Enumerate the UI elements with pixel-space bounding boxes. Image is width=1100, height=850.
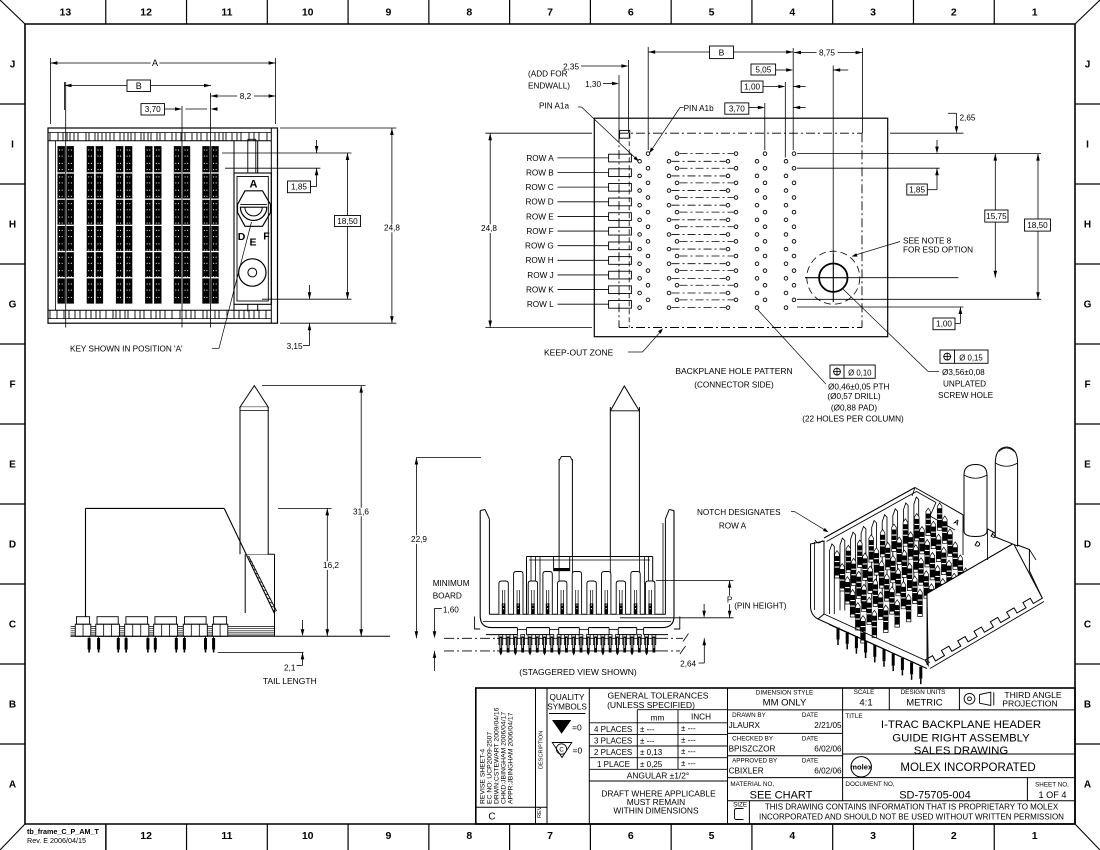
svg-text:I-TRAC BACKPLANE HEADER: I-TRAC BACKPLANE HEADER	[881, 719, 1041, 731]
svg-text:Ø3,56±0,08: Ø3,56±0,08	[942, 368, 985, 377]
side view housing body	[86, 508, 225, 616]
svg-text:1: 1	[1032, 7, 1038, 19]
svg-text:BPISZCZOR: BPISZCZOR	[729, 744, 776, 753]
row G label	[525, 242, 609, 251]
dimension A (overall width)	[50, 58, 275, 124]
svg-text:SHEET NO,: SHEET NO,	[1035, 782, 1069, 789]
svg-text:± ---: ± ---	[681, 724, 696, 733]
isometric letters on guide face	[952, 517, 999, 550]
material no cell	[730, 781, 812, 802]
svg-text:THIS DRAWING CONTAINS INFOR: THIS DRAWING CONTAINS INFORMATION THAT I…	[765, 803, 1059, 812]
svg-text:ROW G: ROW G	[525, 242, 554, 251]
quality symbols box	[547, 688, 589, 824]
svg-text:(CONNECTOR SIDE): (CONNECTOR SIDE)	[694, 381, 774, 390]
svg-text:(22 HOLES PER COLUMN): (22 HOLES PER COLUMN)	[802, 415, 904, 424]
dimension 1.00 (top)	[741, 81, 805, 92]
svg-text:ROW L: ROW L	[527, 300, 554, 309]
svg-text:5,05: 5,05	[755, 65, 771, 74]
svg-text:INCH: INCH	[691, 713, 711, 722]
svg-text:F: F	[263, 231, 270, 243]
svg-text:INCORPORATED AND SHOULD NOT: INCORPORATED AND SHOULD NOT BE USED WITH…	[759, 812, 1064, 821]
svg-text:ROW D: ROW D	[525, 198, 553, 207]
row C label	[525, 183, 608, 192]
dimension 24.8 (front view)	[280, 128, 403, 323]
row C pad	[609, 183, 632, 191]
svg-text:2,64: 2,64	[680, 659, 696, 668]
dimension 18.50 (front view)	[262, 153, 361, 299]
svg-text:ANGULAR ±1/2°: ANGULAR ±1/2°	[627, 771, 689, 781]
svg-text:4: 4	[789, 7, 795, 19]
svg-text:=0: =0	[573, 746, 583, 756]
note notch designates row A	[697, 508, 829, 532]
svg-text:A: A	[1084, 780, 1091, 791]
staggered wafers	[499, 572, 655, 615]
svg-text:3,70: 3,70	[729, 104, 745, 113]
row H label	[525, 256, 608, 265]
svg-text:7: 7	[547, 7, 553, 19]
svg-text:ROW E: ROW E	[526, 212, 554, 221]
dimension B (hole pattern)	[648, 46, 793, 59]
row F label	[526, 227, 608, 236]
svg-text:I: I	[11, 140, 14, 151]
svg-text:MINIMUM: MINIMUM	[433, 579, 470, 588]
svg-text:Ø 0,15: Ø 0,15	[959, 353, 983, 362]
molex logo and company row	[850, 757, 1035, 777]
svg-text:2 PLACES: 2 PLACES	[594, 748, 632, 757]
svg-text:REV: REV	[537, 806, 543, 818]
svg-text:METRIC: METRIC	[906, 698, 943, 709]
svg-text:JLAURX: JLAURX	[729, 721, 761, 730]
note BACKPLANE HOLE PATTERN	[675, 366, 792, 390]
svg-text:13: 13	[60, 7, 72, 19]
staggered view guide pin tall	[610, 386, 639, 614]
svg-text:molex: molex	[850, 763, 873, 772]
dimension 5.05	[751, 64, 848, 75]
svg-text:10: 10	[302, 7, 314, 19]
row D label	[525, 198, 608, 207]
svg-text:ROW B: ROW B	[526, 168, 554, 177]
document no cell	[728, 778, 1076, 802]
side view laminate stack lines	[71, 627, 275, 635]
svg-text:FOR ESD OPTION: FOR ESD OPTION	[903, 245, 973, 254]
svg-text:6: 6	[628, 7, 634, 19]
svg-text:CHECKED BY: CHECKED BY	[732, 735, 774, 742]
front view housing outline	[48, 128, 278, 323]
svg-text:± ---: ± ---	[640, 737, 655, 746]
svg-text:3 PLACES: 3 PLACES	[594, 737, 632, 746]
svg-text:1,00: 1,00	[744, 83, 760, 92]
svg-text:REVISE SHEET-4: REVISE SHEET-4	[480, 749, 487, 804]
svg-text:C: C	[488, 812, 495, 823]
svg-text:(Ø0,57 DRILL): (Ø0,57 DRILL)	[827, 392, 881, 401]
svg-text:E: E	[9, 460, 16, 471]
svg-text:G: G	[1084, 300, 1092, 311]
side view chamfer diagonals with hatching	[224, 508, 276, 613]
svg-text:A: A	[9, 780, 16, 791]
isometric inner right wall lines	[927, 515, 988, 665]
svg-text:4: 4	[789, 830, 795, 842]
dimension 8.2	[211, 92, 276, 101]
svg-text:tb_frame_C_P_AM_T: tb_frame_C_P_AM_T	[27, 827, 100, 836]
svg-text:2: 2	[951, 830, 957, 842]
svg-text:DATE: DATE	[802, 758, 818, 765]
front view top cap band	[48, 133, 271, 141]
row F holes	[638, 225, 796, 236]
svg-text:TITLE: TITLE	[845, 713, 862, 720]
row B label	[526, 168, 609, 177]
svg-text:BACKPLANE HOLE PATTERN: BACKPLANE HOLE PATTERN	[675, 366, 792, 376]
row A notch marker	[554, 557, 570, 571]
dimension style cell	[728, 688, 1076, 801]
svg-text:5: 5	[709, 830, 715, 842]
svg-text:ENDWALL): ENDWALL)	[528, 82, 570, 91]
svg-text:2,65: 2,65	[960, 114, 976, 123]
svg-text:EC NO: UCP2009-2507: EC NO: UCP2009-2507	[487, 732, 494, 804]
svg-text:mm: mm	[651, 714, 665, 723]
label PIN A1a	[539, 102, 639, 162]
staggered view bottom rim with slots	[486, 627, 668, 635]
svg-text:SCALE: SCALE	[854, 689, 875, 696]
dimension 3.15	[287, 285, 312, 351]
row K label	[526, 285, 609, 294]
row L label	[527, 300, 609, 309]
staggered view center block	[527, 557, 653, 615]
svg-text:22,9: 22,9	[411, 535, 427, 544]
svg-text:11: 11	[221, 7, 232, 19]
svg-text:SD-75705-004: SD-75705-004	[899, 790, 971, 802]
svg-text:ROW J: ROW J	[527, 271, 553, 280]
dimension 1.85 (hole pattern)	[797, 140, 1041, 195]
svg-text:1,85: 1,85	[909, 185, 925, 194]
svg-text:J: J	[10, 60, 16, 71]
svg-text:8,2: 8,2	[240, 92, 252, 101]
side view guide pin base	[245, 554, 274, 636]
row C holes	[638, 181, 796, 192]
general tolerances table	[589, 688, 727, 824]
row E label	[526, 212, 609, 221]
svg-text:24,8: 24,8	[384, 224, 400, 233]
svg-text:CBIXLER: CBIXLER	[729, 766, 764, 775]
dimension 18.50 (hole pattern)	[797, 154, 1051, 300]
side view board line	[71, 635, 391, 637]
svg-text:ROW A: ROW A	[526, 154, 554, 163]
svg-text:I: I	[1086, 140, 1089, 151]
svg-text:F: F	[1084, 380, 1090, 391]
key guide hole circle	[239, 259, 266, 286]
side view wafer feet	[75, 617, 227, 637]
svg-text:PIN A1b: PIN A1b	[684, 104, 714, 113]
svg-text:KEY SHOWN IN POSITION 'A': KEY SHOWN IN POSITION 'A'	[70, 345, 183, 354]
dimension 2.35	[563, 63, 628, 72]
svg-text:15,75: 15,75	[986, 212, 1007, 221]
dimension 2.64	[680, 604, 706, 668]
svg-text:6/02/06: 6/02/06	[814, 766, 842, 775]
svg-text:CHKD:JBINGHAM 2006/04/17: CHKD:JBINGHAM 2006/04/17	[501, 712, 508, 804]
title block outer frame	[476, 688, 1075, 824]
row K pad	[609, 286, 632, 294]
svg-text:B: B	[719, 47, 725, 57]
svg-text:DATE: DATE	[802, 712, 818, 719]
svg-text:E: E	[1084, 460, 1091, 471]
svg-text:6/02/06: 6/02/06	[814, 744, 842, 753]
row L holes	[638, 298, 796, 309]
svg-text:18,50: 18,50	[1027, 221, 1048, 230]
dimension 1.00 (bottom)	[797, 307, 963, 330]
svg-text:WITHIN DIMENSIONS: WITHIN DIMENSIONS	[613, 806, 699, 816]
svg-text:F: F	[9, 380, 15, 391]
svg-text:DRAWN BY: DRAWN BY	[732, 712, 767, 719]
svg-text:DRWN:CSTEWART 2009/04/16: DRWN:CSTEWART 2009/04/16	[494, 707, 501, 804]
svg-text:H: H	[9, 220, 16, 231]
svg-text:DESCRIPTION: DESCRIPTION	[539, 731, 545, 769]
GDT box position 0.10	[830, 365, 875, 378]
svg-text:H: H	[1084, 220, 1091, 231]
front view bottom cap band	[48, 310, 271, 318]
isometric guide module top face	[912, 488, 1042, 599]
isometric right face with sawtooth edge	[925, 544, 1044, 669]
key half-ring in position A	[240, 204, 266, 220]
svg-text:4 PLACES: 4 PLACES	[594, 725, 632, 734]
row A holes	[638, 152, 796, 163]
side view guide pin	[240, 386, 268, 555]
contact wafer columns	[58, 146, 219, 304]
extension verticals top dims	[619, 47, 863, 254]
svg-text:± ---: ± ---	[681, 747, 696, 756]
svg-text:8: 8	[466, 7, 472, 19]
row H pad	[609, 257, 632, 265]
staggered view housing walls and base	[475, 510, 680, 630]
svg-text:(UNLESS SPECIFIED): (UNLESS SPECIFIED)	[607, 700, 695, 710]
svg-text:16,2: 16,2	[323, 561, 339, 570]
svg-text:DIMENSION STYLE: DIMENSION STYLE	[756, 690, 813, 697]
note staggered view shown	[519, 667, 637, 677]
svg-text:5: 5	[709, 7, 715, 19]
svg-text:BOARD: BOARD	[433, 592, 462, 601]
svg-text:1,00: 1,00	[936, 320, 952, 329]
dimension minimum board 1.60	[433, 579, 470, 671]
svg-text:3: 3	[870, 830, 876, 842]
svg-text:9: 9	[386, 7, 392, 19]
svg-text:Rev. E 2006/04/15: Rev. E 2006/04/15	[27, 836, 86, 845]
svg-text:ROW H: ROW H	[525, 256, 553, 265]
svg-text:(STAGGERED VIEW SHOWN): (STAGGERED VIEW SHOWN)	[519, 667, 637, 677]
dimension P pin height	[620, 581, 787, 618]
svg-text:APPR:JBINGHAM 2006/04/17: APPR:JBINGHAM 2006/04/17	[508, 712, 515, 804]
third angle projection cell	[964, 690, 1062, 709]
dimension 3.70 column pitch	[141, 104, 218, 115]
size cell and proprietary note	[733, 801, 1064, 824]
dimension 3.70 (hole pattern)	[725, 103, 806, 114]
row J label	[527, 271, 608, 280]
side view solder tails	[88, 636, 216, 652]
isometric guide cylinder tall	[995, 447, 1017, 546]
svg-text:ROW C: ROW C	[525, 183, 553, 192]
svg-text:± ---: ± ---	[681, 759, 696, 768]
svg-text:31,6: 31,6	[353, 508, 369, 517]
svg-text:(ADD FOR: (ADD FOR	[528, 70, 568, 79]
svg-text:3,15: 3,15	[287, 342, 303, 351]
svg-text:B: B	[9, 700, 16, 711]
svg-text:A: A	[250, 179, 258, 191]
svg-text:DOCUMENT NO,: DOCUMENT NO,	[845, 781, 894, 788]
row K holes	[638, 283, 796, 294]
svg-text:PIN A1a: PIN A1a	[539, 102, 569, 111]
svg-text:12: 12	[140, 7, 152, 19]
row J pad	[609, 271, 632, 279]
dimension 31.6	[262, 386, 372, 637]
frame id box	[27, 824, 106, 850]
row D pad	[609, 198, 632, 206]
key bottom connecting boss	[234, 304, 258, 311]
svg-text:C: C	[1084, 620, 1091, 631]
svg-text:UNPLATED: UNPLATED	[943, 380, 986, 389]
svg-text:3: 3	[870, 7, 876, 19]
row F pad	[609, 227, 632, 235]
wafer centerlines / extension lines	[66, 82, 211, 328]
dimension 1.85 (front view)	[222, 140, 352, 193]
svg-text:1 OF 4: 1 OF 4	[1038, 790, 1066, 800]
row G pad	[609, 242, 632, 250]
key letters D E F	[238, 231, 271, 249]
drawn-by cells	[728, 712, 1076, 778]
svg-text:GENERAL TOLERANCES: GENERAL TOLERANCES	[607, 691, 708, 701]
svg-text:8: 8	[466, 830, 472, 842]
isometric base bottom-left edge and tails	[818, 614, 930, 684]
keep-out zone dashed rectangle	[619, 133, 862, 327]
svg-text:2: 2	[951, 7, 957, 19]
design units cell	[901, 688, 960, 710]
svg-text:1 PLACE: 1 PLACE	[597, 760, 630, 769]
row H holes	[638, 254, 796, 265]
svg-text:ROW K: ROW K	[526, 285, 554, 294]
svg-text:B: B	[136, 81, 142, 91]
svg-text:11: 11	[221, 830, 232, 842]
svg-text:12: 12	[140, 830, 152, 842]
svg-text:SIZE: SIZE	[733, 802, 747, 809]
svg-text:=0: =0	[572, 723, 582, 733]
backplane outline rectangle	[594, 118, 887, 337]
svg-text:D: D	[9, 540, 16, 551]
key letter A	[250, 179, 258, 191]
svg-text:GUIDE RIGHT ASSEMBLY: GUIDE RIGHT ASSEMBLY	[892, 732, 1030, 744]
svg-text:24,8: 24,8	[481, 224, 497, 233]
dimension 2.65	[890, 113, 976, 133]
key polarization octagon	[238, 191, 271, 227]
title cell	[843, 713, 1075, 757]
row E pad	[609, 213, 632, 221]
svg-text:± ---: ± ---	[640, 725, 655, 734]
svg-text:SALES DRAWING: SALES DRAWING	[914, 745, 1009, 757]
svg-text:± ---: ± ---	[681, 736, 696, 745]
row B holes	[638, 166, 796, 177]
svg-text:A: A	[152, 58, 158, 68]
svg-text:SCREW HOLE: SCREW HOLE	[938, 391, 994, 400]
svg-text:4:1: 4:1	[859, 698, 872, 709]
svg-text:8,75: 8,75	[819, 49, 835, 58]
row J holes	[638, 269, 796, 280]
svg-text:18,50: 18,50	[337, 217, 358, 226]
note unplated screw hole callout	[843, 289, 994, 400]
svg-text:DATE: DATE	[802, 735, 818, 742]
row G holes	[638, 240, 796, 251]
row B pad	[609, 169, 632, 177]
svg-text:Ø 0,10: Ø 0,10	[848, 368, 872, 377]
svg-text:ROW A: ROW A	[719, 522, 747, 531]
dimension 22.9	[409, 458, 482, 639]
row L pad	[609, 301, 632, 309]
svg-text:± 0,25: ± 0,25	[640, 760, 663, 769]
svg-text:1,30: 1,30	[585, 80, 601, 89]
unplated screw hole	[805, 251, 860, 304]
dimension 8.75	[794, 49, 863, 58]
label KEEP-OUT ZONE	[544, 328, 663, 357]
svg-text:MOLEX INCORPORATED: MOLEX INCORPORATED	[900, 762, 1035, 774]
svg-text:C: C	[9, 620, 16, 631]
svg-text:MM ONLY: MM ONLY	[763, 698, 807, 709]
isometric guide cylinder short	[964, 465, 987, 537]
svg-text:DESIGN UNITS: DESIGN UNITS	[901, 689, 946, 696]
key section body	[234, 173, 271, 304]
key top connecting boss	[234, 139, 258, 173]
svg-text:± 0,13: ± 0,13	[640, 748, 663, 757]
svg-text:ROW F: ROW F	[526, 227, 553, 236]
note plated hole callout	[758, 310, 904, 424]
svg-text:(Ø0,88 PAD): (Ø0,88 PAD)	[831, 404, 878, 413]
svg-text:KEEP-OUT ZONE: KEEP-OUT ZONE	[544, 348, 614, 358]
svg-text:SEE CHART: SEE CHART	[750, 790, 813, 802]
svg-text:(PIN HEIGHT): (PIN HEIGHT)	[734, 602, 787, 611]
svg-text:1,85: 1,85	[291, 183, 307, 192]
revision block	[476, 688, 547, 824]
row D holes	[638, 196, 796, 207]
note KEY SHOWN IN POSITION A	[70, 222, 252, 354]
svg-text:Ø0,46±0,05 PTH: Ø0,46±0,05 PTH	[828, 383, 889, 392]
svg-text:3,70: 3,70	[145, 105, 161, 114]
svg-text:J: J	[1085, 60, 1091, 71]
svg-text:APPROVED BY: APPROVED BY	[732, 758, 778, 765]
dimension 2.1 tail length	[218, 620, 317, 686]
svg-text:NOTCH DESIGNATES: NOTCH DESIGNATES	[697, 508, 781, 517]
dimension 16.2	[278, 508, 342, 636]
svg-text:PROJECTION: PROJECTION	[1002, 699, 1057, 709]
dimension 1.30 and endwall note	[528, 70, 619, 91]
staggered solder tails through board	[499, 635, 656, 656]
svg-text:9: 9	[386, 830, 392, 842]
isometric wall wafer blades	[830, 497, 919, 614]
row A label	[526, 154, 608, 163]
svg-text:B: B	[1084, 700, 1091, 711]
svg-text:D: D	[1084, 540, 1091, 551]
svg-text:QUALITY: QUALITY	[549, 693, 585, 702]
board cross-section lines	[444, 634, 689, 655]
svg-text:E: E	[249, 237, 256, 249]
svg-text:C: C	[559, 748, 564, 754]
GDT box position 0.15	[940, 350, 988, 363]
svg-text:10: 10	[302, 830, 314, 842]
row A pad	[609, 154, 632, 162]
svg-text:SEE NOTE 8: SEE NOTE 8	[903, 237, 952, 246]
svg-text:7: 7	[547, 830, 553, 842]
note SEE NOTE 8 FOR ESD OPTION	[852, 237, 974, 257]
dimension 24.8 (hole pattern)	[479, 133, 593, 327]
svg-text:1: 1	[1032, 830, 1038, 842]
isometric pin field	[835, 503, 968, 643]
front view left edge wall	[55, 141, 57, 311]
scale cell	[854, 688, 890, 710]
dimension B (boxed)	[65, 80, 212, 110]
svg-text:6: 6	[628, 830, 634, 842]
svg-text:SYMBOLS: SYMBOLS	[547, 703, 587, 712]
